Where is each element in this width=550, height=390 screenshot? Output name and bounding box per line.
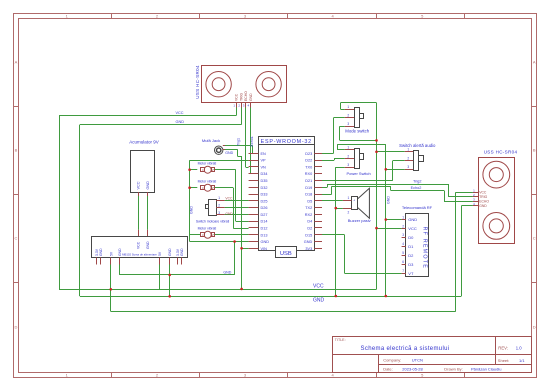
svg-text:GND: GND (118, 248, 122, 256)
svg-text:VP: VP (261, 159, 267, 163)
svg-text:1: 1 (402, 215, 404, 219)
svg-text:VCC: VCC (313, 284, 324, 290)
svg-text:1.0: 1.0 (516, 345, 522, 350)
svg-text:Mode switch: Mode switch (345, 129, 369, 134)
svg-text:GND: GND (304, 240, 313, 244)
svg-text:GND: GND (189, 206, 193, 214)
svg-text:RX2: RX2 (305, 213, 312, 217)
svg-text:VCC: VCC (225, 196, 233, 200)
svg-text:2: 2 (218, 204, 220, 208)
svg-text:GND: GND (479, 204, 487, 208)
svg-text:Trig2: Trig2 (413, 180, 422, 184)
svg-text:VCC: VCC (137, 181, 141, 189)
svg-text:GND: GND (146, 241, 150, 249)
svg-text:+: + (353, 199, 355, 203)
svg-text:1: 1 (348, 196, 350, 200)
svg-text:EN: EN (261, 152, 267, 156)
svg-text:TITLE:: TITLE: (335, 338, 346, 342)
svg-text:1: 1 (218, 196, 220, 200)
svg-text:Echo2: Echo2 (411, 186, 422, 190)
svg-text:D26: D26 (261, 206, 268, 210)
svg-text:D4: D4 (307, 220, 312, 224)
svg-text:5V: 5V (158, 251, 162, 256)
svg-text:VCC: VCC (176, 111, 184, 115)
svg-text:1: 1 (347, 146, 349, 150)
svg-text:A: A (15, 60, 18, 65)
svg-text:ECHO: ECHO (479, 200, 489, 204)
svg-text:D2: D2 (408, 253, 414, 258)
svg-text:RF REMOTE: RF REMOTE (421, 227, 427, 270)
svg-text:B: B (15, 148, 18, 153)
svg-text:ESP-WROOM-32: ESP-WROOM-32 (261, 139, 312, 145)
svg-text:MB102 Sursa de alimentare: MB102 Sursa de alimentare (122, 252, 157, 256)
svg-text:3: 3 (218, 211, 220, 215)
svg-text:GND: GND (223, 271, 231, 275)
svg-text:Date:: Date: (383, 366, 393, 371)
svg-text:GND: GND (180, 248, 184, 256)
svg-text:Schema electrică a sistemului: Schema electrică a sistemului (361, 346, 450, 352)
svg-text:UTCN: UTCN (412, 358, 423, 363)
svg-text:1: 1 (347, 105, 349, 109)
svg-text:GND: GND (313, 298, 325, 304)
svg-text:GND: GND (168, 248, 172, 256)
svg-text:D1: D1 (408, 244, 414, 249)
svg-text:2: 2 (402, 224, 404, 228)
svg-text:D34: D34 (261, 172, 268, 176)
svg-text:C: C (533, 236, 536, 241)
svg-text:GND: GND (387, 196, 391, 204)
svg-text:3: 3 (347, 163, 349, 167)
svg-text:USS HC-SR04: USS HC-SR04 (195, 65, 200, 99)
svg-text:VCC: VCC (408, 226, 417, 231)
svg-text:VN: VN (261, 165, 267, 169)
svg-text:VIN: VIN (261, 247, 268, 251)
svg-text:VCC: VCC (479, 191, 487, 195)
svg-text:GND: GND (249, 93, 253, 101)
svg-text:GND: GND (261, 240, 270, 244)
svg-text:VT: VT (408, 271, 414, 276)
svg-text:Mufă Jack: Mufă Jack (202, 138, 220, 143)
svg-text:Echo1: Echo1 (250, 136, 254, 146)
svg-text:USS HC-SR04: USS HC-SR04 (484, 150, 518, 155)
svg-text:VCC: VCC (137, 241, 141, 249)
svg-text:D21: D21 (305, 179, 312, 183)
svg-text:D: D (533, 325, 536, 330)
svg-text:D2: D2 (307, 226, 312, 230)
svg-text:GND: GND (176, 120, 185, 124)
svg-text:D23: D23 (305, 152, 312, 156)
svg-text:VCC: VCC (235, 93, 239, 101)
svg-text:D15: D15 (305, 233, 312, 237)
svg-text:4: 4 (402, 242, 404, 246)
svg-text:Switch motoare vibrati: Switch motoare vibrati (196, 220, 230, 224)
svg-text:Telecomandă RF: Telecomandă RF (402, 205, 433, 210)
svg-text:Acumulator 9V: Acumulator 9V (129, 139, 159, 144)
svg-text:TRIG: TRIG (240, 93, 244, 101)
svg-text:REV:: REV: (498, 345, 508, 350)
svg-text:Buzzer pasiv: Buzzer pasiv (348, 218, 371, 223)
svg-text:GND: GND (99, 248, 103, 256)
svg-text:6: 6 (402, 260, 404, 264)
svg-text:5: 5 (402, 251, 404, 255)
svg-text:C: C (14, 236, 17, 241)
svg-text:2: 2 (347, 114, 349, 118)
svg-text:D32: D32 (261, 186, 268, 190)
svg-text:ECHO: ECHO (244, 91, 248, 101)
svg-text:D19: D19 (305, 186, 312, 190)
svg-text:TRIG: TRIG (479, 195, 487, 199)
svg-text:Sheet:: Sheet: (498, 358, 510, 363)
svg-text:1/1: 1/1 (519, 358, 525, 363)
svg-text:USB: USB (280, 251, 292, 257)
svg-text:D12: D12 (261, 226, 268, 230)
svg-text:A: A (533, 60, 536, 65)
svg-text:2: 2 (347, 154, 349, 158)
svg-text:3V3: 3V3 (305, 247, 312, 251)
svg-text:2: 2 (348, 210, 350, 214)
svg-text:7: 7 (402, 269, 404, 273)
svg-text:Switch alertă audio: Switch alertă audio (399, 143, 436, 148)
svg-text:Company:: Company: (383, 358, 401, 363)
svg-text:1: 1 (407, 148, 409, 152)
svg-text:D14: D14 (261, 220, 268, 224)
svg-text:D33: D33 (261, 193, 268, 197)
svg-text:D35: D35 (261, 179, 268, 183)
svg-text:Motor vibrati: Motor vibrati (198, 180, 217, 184)
svg-text:D0: D0 (408, 235, 414, 240)
svg-text:2023-05-28: 2023-05-28 (402, 366, 423, 371)
svg-text:3: 3 (402, 233, 404, 237)
svg-text:GND: GND (146, 181, 150, 190)
svg-text:5V: 5V (109, 251, 113, 256)
svg-text:Trig1: Trig1 (236, 138, 240, 146)
svg-text:Power Switch: Power Switch (346, 171, 370, 176)
svg-text:D5: D5 (307, 199, 312, 203)
svg-text:B: B (533, 148, 536, 153)
svg-text:D25: D25 (261, 199, 268, 203)
svg-text:Motor vibrati: Motor vibrati (198, 227, 217, 231)
svg-text:2: 2 (407, 156, 409, 160)
svg-text:TX2: TX2 (305, 206, 312, 210)
svg-text:D18: D18 (305, 193, 312, 197)
svg-text:Drawn By:: Drawn By: (444, 366, 462, 371)
svg-text:3: 3 (347, 122, 349, 126)
svg-text:D13: D13 (261, 233, 268, 237)
svg-text:D27: D27 (261, 213, 268, 217)
svg-text:Pănăzan Claudiu: Pănăzan Claudiu (471, 366, 501, 371)
svg-text:D: D (14, 325, 17, 330)
svg-text:RX0: RX0 (305, 172, 312, 176)
svg-text:GND: GND (225, 151, 233, 155)
svg-text:GND: GND (225, 212, 233, 216)
svg-text:TX0: TX0 (305, 165, 312, 169)
svg-text:GND: GND (408, 217, 417, 222)
svg-text:3: 3 (407, 165, 409, 169)
svg-text:Motor vibrati: Motor vibrati (198, 162, 217, 166)
svg-text:D3: D3 (408, 262, 414, 267)
svg-text:D22: D22 (305, 159, 312, 163)
